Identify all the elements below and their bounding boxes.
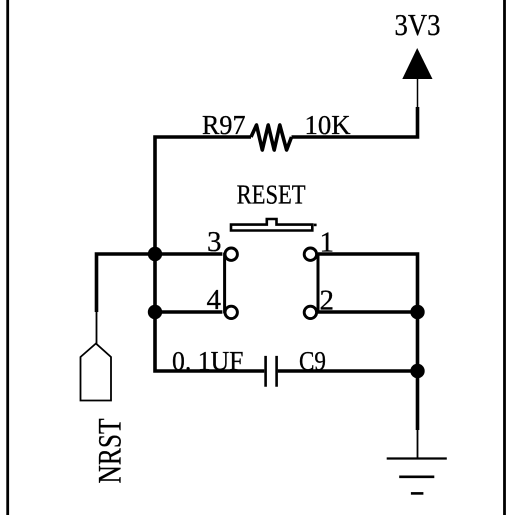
svg-text:RESET: RESET	[237, 180, 306, 210]
svg-text:R97: R97	[202, 110, 246, 140]
svg-text:4: 4	[207, 284, 222, 316]
svg-text:3V3: 3V3	[395, 8, 441, 42]
svg-text:3: 3	[207, 226, 222, 258]
svg-text:C9: C9	[299, 346, 326, 376]
svg-text:0. 1UF: 0. 1UF	[172, 346, 244, 376]
svg-text:1: 1	[320, 226, 335, 258]
svg-text:NRST: NRST	[93, 419, 129, 484]
svg-text:2: 2	[320, 285, 335, 317]
svg-text:10K: 10K	[305, 110, 351, 140]
